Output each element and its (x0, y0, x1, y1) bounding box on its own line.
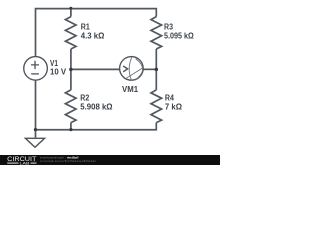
svg-text:5.908 kΩ: 5.908 kΩ (80, 102, 112, 111)
svg-text:VM1: VM1 (122, 85, 139, 94)
svg-text:5.095 kΩ: 5.095 kΩ (164, 31, 194, 40)
svg-text:7 kΩ: 7 kΩ (165, 102, 182, 111)
svg-text:elect2/pt2: elect2/pt2 (67, 156, 79, 160)
svg-text:R4: R4 (165, 94, 175, 103)
svg-text:envelope/single :: envelope/single : (40, 156, 66, 160)
svg-text:circuitlab.com/c/5c2f9ab4eec8d: circuitlab.com/c/5c2f9ab4eec8d9ab4e (40, 159, 97, 163)
svg-text:LAB: LAB (20, 160, 30, 165)
svg-text:4.3 kΩ: 4.3 kΩ (81, 31, 105, 40)
svg-text:10 V: 10 V (50, 67, 67, 76)
svg-text:R2: R2 (80, 94, 90, 103)
